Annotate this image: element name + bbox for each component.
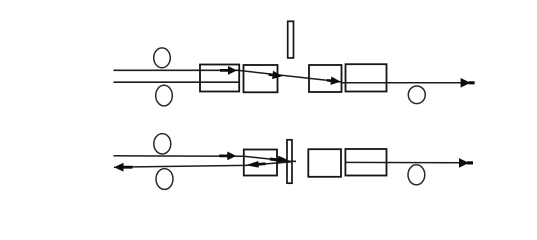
arrow A9: bottom-row output arrowhead (459, 158, 473, 168)
arrow A4: top-row output arrowhead (461, 78, 475, 88)
etalon E1: thin vertical slab above beam between U2 and U3 (top row) (288, 21, 294, 58)
lens loop L4: upper lens above forward beam (bottom row) (154, 134, 171, 154)
wire W5: forward beam line into box U5 (bottom row) (114, 156, 297, 162)
wire W4: output beam line through box U4 to the right (top row) (341, 82, 465, 84)
box U6: post-amplifier box (bottom row) (308, 149, 341, 177)
wire W7: reflected return beam from etalon E2 back to the left (114, 162, 291, 167)
wire W2: lower input beam line (top row), ends at amplifier box right edge (114, 81, 240, 83)
lens loop L1: upper lens above input beam (top row) (154, 48, 171, 68)
wire W3: diagonal beam from U1 through U2 into U3 (239, 71, 341, 82)
box U3: third amplifier stage (top row) (309, 65, 342, 92)
arrow A1: beam direction arrow inside box U1 (220, 66, 237, 75)
etalon E2: thin vertical mirror slab right of box U5 (bottom row) (287, 140, 292, 183)
arrow A5: forward beam arrow before box U5 (219, 152, 236, 161)
box U4: final amplifier stage (top row) (346, 64, 387, 91)
lens loop L6: output lens below output beam (bottom row) (408, 165, 425, 185)
arrow A7: large return arrow inside box U5 pointing left (245, 160, 265, 168)
arrow A3: beam direction arrow at right edge of box U3 (326, 76, 341, 86)
arrow A6: large forward arrow hitting etalon E2 (269, 155, 291, 166)
wire W1: upper input beam line (top row) (114, 69, 240, 71)
lens loop L5: lower lens below return beam (bottom row) (156, 169, 173, 190)
wire W6: beam stub crossing etalon E2 (283, 160, 296, 163)
lens loop L3: output lens below output beam (top row) (408, 86, 425, 104)
box U1: first amplifier stage (top row) (200, 65, 239, 92)
box U7: final stage with beam through its middle (bottom row) (345, 149, 386, 176)
arrow A8: return beam arrowhead at far left (bottom row) (114, 163, 133, 172)
arrow A2: beam direction arrow at right edge of box U2 (268, 70, 283, 80)
lens loop L2: lower lens below input beam (top row) (156, 85, 173, 106)
wire W8: output beam line through box U7 to the right (bottom row) (345, 161, 462, 163)
box U5: double-pass amplifier (bottom row) (244, 150, 277, 176)
box U2: second amplifier stage (top row) (244, 65, 278, 92)
